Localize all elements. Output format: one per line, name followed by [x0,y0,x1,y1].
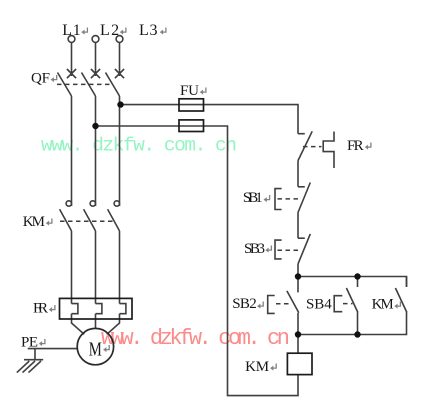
svg-text:KM: KM [245,359,269,375]
svg-text:M: M [89,340,102,361]
svg-text:SB4: SB4 [306,297,332,313]
svg-text:QF: QF [31,70,50,86]
svg-text:KM: KM [372,297,394,313]
svg-text:PE: PE [21,334,38,350]
svg-text:KM: KM [23,214,45,230]
svg-text:FR: FR [347,138,364,154]
svg-text:SB3: SB3 [244,241,265,257]
svg-text:SB2: SB2 [232,296,256,312]
svg-text:www. dzkfw. com. cn: www. dzkfw. com. cn [101,326,290,351]
svg-text:L2: L2 [100,22,119,39]
svg-text:L1: L1 [62,22,80,39]
svg-text:FR: FR [33,300,48,316]
svg-text:FU: FU [180,83,199,99]
svg-text:L3: L3 [139,22,158,39]
svg-text:SB1: SB1 [243,190,263,206]
svg-text:www. dzkfw. com. cn: www. dzkfw. com. cn [41,134,237,156]
